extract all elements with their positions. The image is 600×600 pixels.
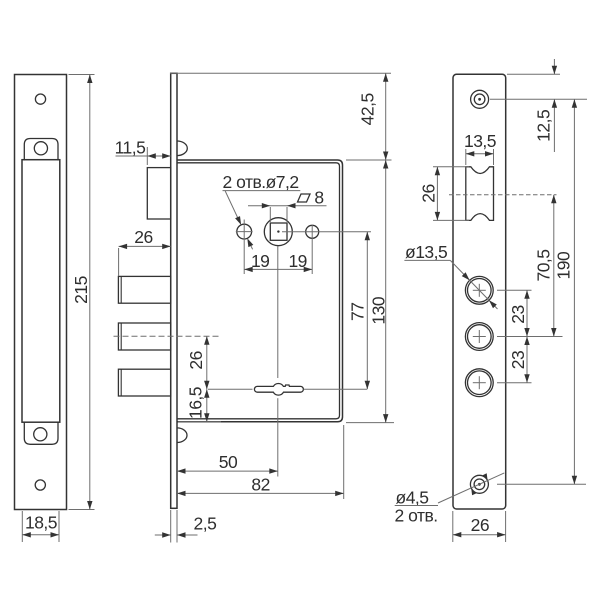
svg-text:70,5: 70,5 [534, 249, 554, 281]
svg-text:2 отв.ø7,2: 2 отв.ø7,2 [223, 172, 299, 192]
svg-text:215: 215 [71, 276, 91, 304]
svg-text:2 отв.: 2 отв. [395, 505, 438, 525]
svg-text:26: 26 [134, 227, 152, 247]
svg-text:23: 23 [508, 351, 528, 369]
svg-text:42,5: 42,5 [358, 93, 378, 125]
svg-text:19: 19 [251, 251, 269, 271]
svg-text:26: 26 [419, 184, 439, 202]
svg-text:190: 190 [554, 251, 574, 279]
svg-text:2,5: 2,5 [193, 513, 216, 533]
svg-text:77: 77 [348, 303, 368, 321]
svg-text:19: 19 [288, 251, 306, 271]
svg-text:82: 82 [251, 474, 269, 494]
svg-text:ø13,5: ø13,5 [405, 242, 447, 262]
svg-text:26: 26 [471, 515, 489, 535]
svg-text:8: 8 [314, 188, 323, 208]
svg-text:50: 50 [219, 452, 238, 472]
svg-text:26: 26 [186, 351, 206, 369]
svg-text:18,5: 18,5 [25, 512, 57, 532]
svg-text:130: 130 [369, 296, 389, 324]
svg-text:16,5: 16,5 [186, 387, 206, 419]
svg-text:23: 23 [508, 305, 528, 323]
svg-text:13,5: 13,5 [464, 131, 496, 151]
svg-text:11,5: 11,5 [115, 138, 146, 158]
svg-text:12,5: 12,5 [534, 110, 554, 142]
